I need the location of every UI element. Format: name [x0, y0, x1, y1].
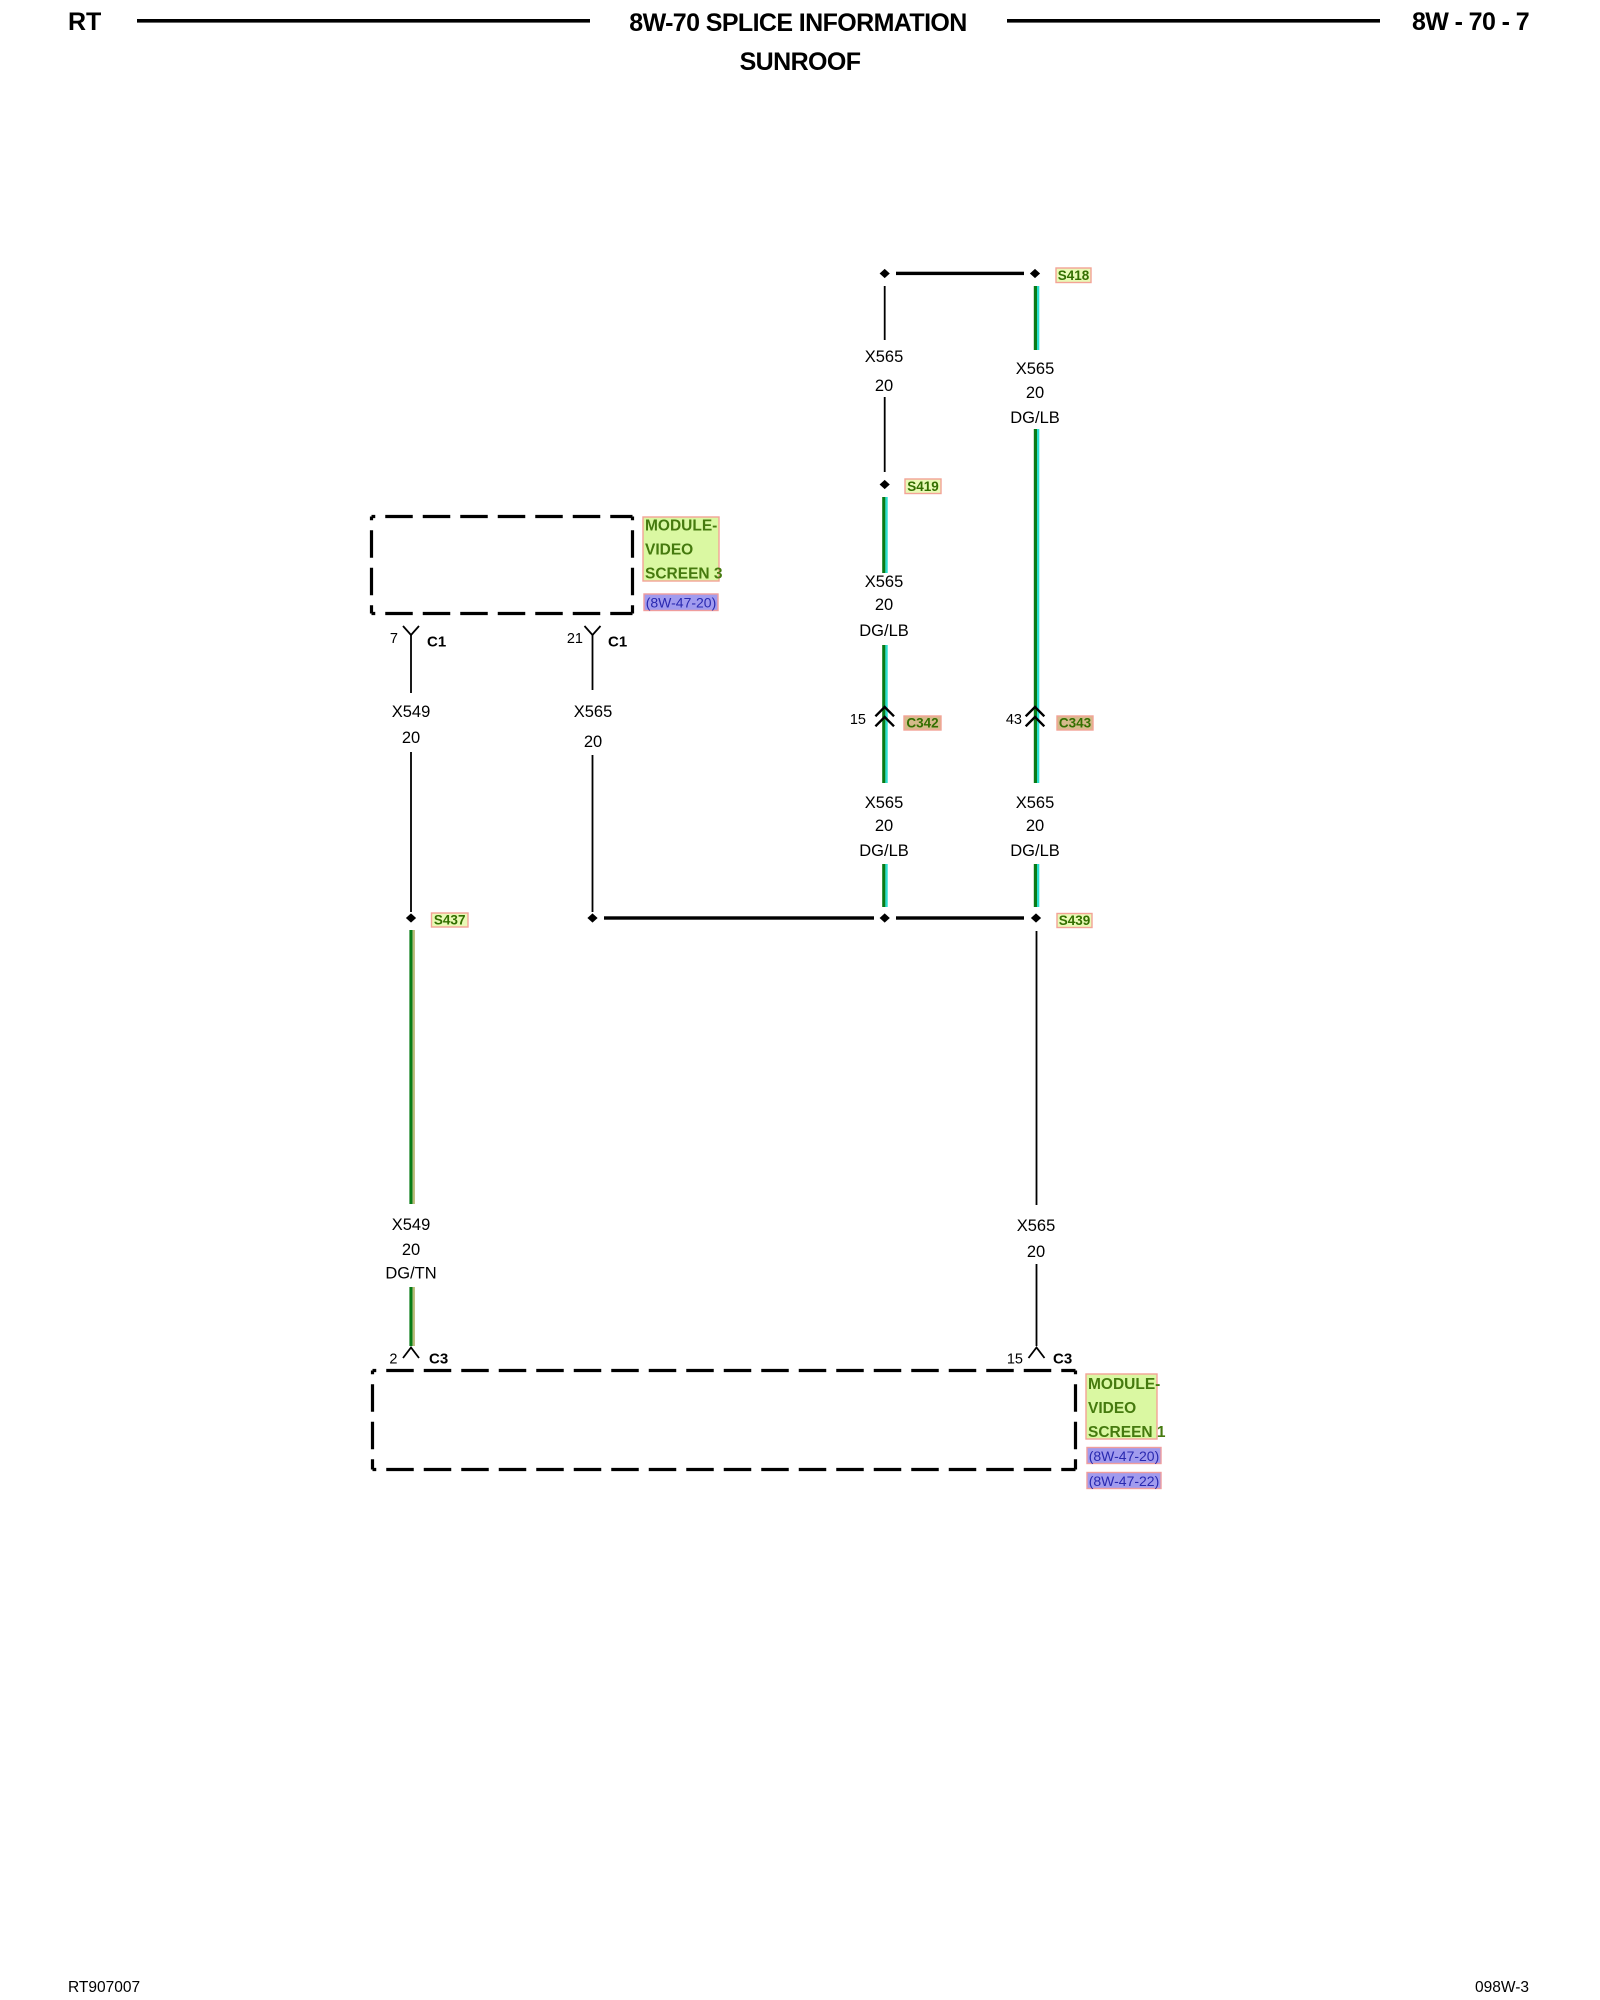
svg-text:X549: X549	[392, 703, 431, 721]
node diamond S437	[406, 913, 416, 922]
node diamond at bus center	[880, 913, 890, 922]
svg-text:SUNROOF: SUNROOF	[740, 48, 861, 76]
node diamond at bus left end	[587, 913, 597, 922]
svg-text:MODULE-: MODULE-	[645, 517, 717, 534]
svg-text:20: 20	[402, 729, 420, 747]
wire continues to C3 pin 15	[1036, 1264, 1038, 1346]
wire X565 below S439	[1036, 931, 1038, 1205]
connector C342 chevrons	[875, 707, 894, 726]
svg-text:X565: X565	[574, 703, 613, 721]
svg-text:20: 20	[875, 817, 893, 835]
module label MODULE-VIDEO SCREEN 1	[1086, 1374, 1166, 1441]
svg-text:C1: C1	[427, 634, 446, 651]
svg-text:S437: S437	[434, 913, 466, 928]
reference (8W-47-20)	[644, 594, 718, 611]
connector C3 pin 15 fork	[1029, 1348, 1045, 1359]
svg-text:VIDEO: VIDEO	[645, 541, 693, 558]
connector C1 pin 21 fork	[585, 626, 601, 690]
splice label S418	[1056, 268, 1091, 283]
reference (8W-47-22)	[1087, 1473, 1161, 1489]
connector C343 chevrons	[1026, 707, 1045, 726]
wire continues to C342	[882, 645, 888, 783]
splice label S439	[1057, 913, 1092, 928]
svg-text:X565: X565	[865, 573, 904, 591]
svg-text:C1: C1	[608, 634, 627, 651]
wire X549 DG/TN below S437	[409, 930, 415, 1204]
connector label C343	[1057, 716, 1093, 731]
wire continues to C3 pin 2	[409, 1287, 415, 1346]
svg-text:RT907007: RT907007	[68, 1979, 140, 1996]
svg-text:C3: C3	[429, 1351, 448, 1368]
module box: MODULE-VIDEO SCREEN 3	[372, 517, 633, 614]
svg-text:7: 7	[390, 631, 398, 647]
wire X549 continues to S437	[410, 752, 412, 912]
svg-text:(8W-47-22): (8W-47-22)	[1089, 1473, 1160, 1489]
svg-text:8W - 70 - 7: 8W - 70 - 7	[1412, 8, 1529, 36]
svg-text:DG/LB: DG/LB	[859, 842, 909, 860]
node diamond at S418 left	[880, 269, 890, 278]
svg-text:S439: S439	[1059, 913, 1091, 928]
svg-text:X549: X549	[392, 1216, 431, 1234]
wire continues to C343	[1034, 429, 1040, 783]
node diamond S419	[880, 480, 890, 489]
svg-text:20: 20	[875, 596, 893, 614]
splice label S437	[432, 913, 469, 928]
svg-text:21: 21	[567, 631, 583, 647]
svg-text:VIDEO: VIDEO	[1088, 1400, 1136, 1417]
svg-text:20: 20	[584, 733, 602, 751]
svg-text:43: 43	[1006, 712, 1022, 728]
wire X565 DG/LB below S419	[882, 497, 888, 573]
svg-text:(8W-47-20): (8W-47-20)	[646, 594, 717, 610]
reference (8W-47-20)	[1087, 1448, 1161, 1464]
svg-text:8W-70 SPLICE INFORMATION: 8W-70 SPLICE INFORMATION	[629, 9, 966, 37]
svg-text:098W-3: 098W-3	[1475, 1979, 1529, 1996]
node diamond S439	[1031, 913, 1041, 922]
splice S439 bus wire left segment	[604, 916, 874, 919]
svg-text:X565: X565	[865, 348, 904, 366]
module label MODULE-VIDEO SCREEN 3	[643, 517, 723, 582]
svg-text:X565: X565	[1016, 360, 1055, 378]
svg-text:S419: S419	[907, 479, 939, 494]
svg-text:(8W-47-20): (8W-47-20)	[1089, 1448, 1160, 1464]
connector C1 pin 7 fork	[403, 626, 419, 693]
connector C3 pin 2 fork	[403, 1348, 419, 1359]
splice S439 bus wire right segment	[896, 916, 1024, 919]
wire continues	[884, 397, 886, 472]
svg-text:20: 20	[1026, 817, 1044, 835]
svg-text:DG/LB: DG/LB	[1010, 842, 1060, 860]
svg-text:DG/TN: DG/TN	[385, 1264, 436, 1282]
svg-text:DG/LB: DG/LB	[859, 622, 909, 640]
svg-text:X565: X565	[1016, 794, 1055, 812]
splice S418 bus wire	[896, 272, 1024, 275]
svg-text:RT: RT	[68, 8, 101, 36]
svg-text:C3: C3	[1053, 1351, 1072, 1368]
wire X565 from S418 to S419	[884, 286, 886, 340]
splice label S419	[905, 479, 941, 494]
svg-text:X565: X565	[1017, 1217, 1056, 1235]
svg-text:2: 2	[389, 1352, 397, 1368]
wire continues to S439	[1034, 864, 1040, 907]
connector label C342	[904, 716, 941, 731]
svg-text:C342: C342	[906, 716, 938, 731]
wire X565 continues to S439 bus	[592, 755, 594, 912]
svg-text:15: 15	[1007, 1352, 1023, 1368]
svg-text:DG/LB: DG/LB	[1010, 409, 1060, 427]
svg-text:20: 20	[402, 1241, 420, 1259]
svg-text:SCREEN 3: SCREEN 3	[645, 565, 723, 582]
header rule right	[1007, 19, 1380, 23]
svg-text:X565: X565	[865, 794, 904, 812]
svg-text:20: 20	[1026, 384, 1044, 402]
right column: wire X565 DG/LB from S418	[1034, 286, 1040, 350]
svg-text:SCREEN 1: SCREEN 1	[1088, 1424, 1166, 1441]
svg-text:20: 20	[1027, 1243, 1045, 1261]
svg-text:20: 20	[875, 377, 893, 395]
svg-text:15: 15	[850, 712, 866, 728]
node diamond at S418	[1030, 269, 1040, 278]
svg-text:S418: S418	[1058, 268, 1090, 283]
svg-text:C343: C343	[1059, 716, 1092, 731]
wire continues to S439 bus	[882, 864, 888, 907]
module box: MODULE-VIDEO SCREEN 1	[373, 1371, 1076, 1470]
svg-text:MODULE-: MODULE-	[1088, 1376, 1160, 1393]
header rule left	[137, 19, 590, 23]
